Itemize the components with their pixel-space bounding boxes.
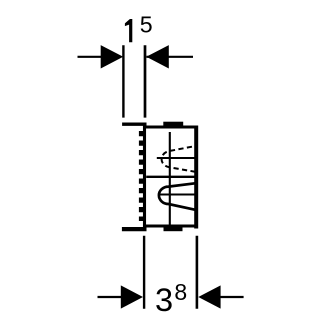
part: housing bottom edge: [144, 225, 198, 228]
top dimension left arrowhead: [101, 45, 124, 68]
part: interior line L3: [158, 194, 196, 196]
part: top tab: [163, 122, 183, 128]
top extension line left: [122, 45, 124, 117]
svg-text:3: 3: [155, 281, 173, 318]
part: bottom flange: [122, 227, 147, 231]
top dimension line left tail: [78, 56, 113, 58]
top dimension right arrowhead: [146, 45, 169, 68]
part: interior line L1: [157, 157, 196, 159]
top extension line right: [144, 45, 147, 117]
bottom dimension left tail: [98, 296, 133, 298]
part: centre line vertical: [169, 132, 171, 231]
part: interior line L2: [146, 176, 196, 178]
part: top flange: [122, 122, 146, 125]
part: bottom tab: [164, 225, 183, 231]
bottom extension line left: [143, 236, 145, 309]
dimension text 1.5 (top): [125, 12, 153, 43]
bottom dimension right arrowhead: [198, 285, 220, 308]
bottom dimension left arrowhead: [121, 285, 143, 308]
part: serration teeth (dashed strip): [139, 131, 146, 221]
svg-text:5: 5: [140, 12, 153, 38]
svg-text:8: 8: [174, 279, 187, 305]
top dimension right tail: [147, 56, 194, 58]
part: housing top edge: [144, 126, 198, 129]
bottom extension line right: [196, 236, 199, 309]
part: serrated plate main line: [143, 124, 146, 230]
part: housing right edge: [194, 126, 198, 229]
part: spring clip solid (lower position): [159, 183, 196, 210]
part: spring clip dashed (upper position): [162, 146, 196, 172]
bottom dimension right tail: [209, 296, 244, 298]
dimension text 3.8 (bottom): [155, 279, 187, 318]
